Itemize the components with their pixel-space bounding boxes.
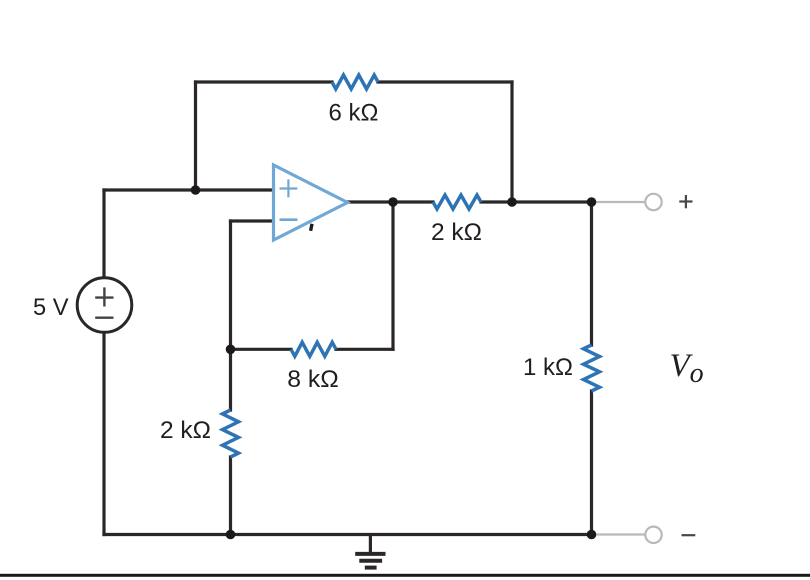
bottom page rule [0, 574, 810, 577]
node junction noninverting input [191, 185, 201, 195]
wire R8k right segment [336, 348, 393, 351]
label minus terminal [682, 534, 696, 536]
resistor 1 kOhm vertical [584, 345, 600, 391]
wire feedback right vertical [510, 82, 513, 202]
svg-text:1 kΩ: 1 kΩ [523, 354, 573, 381]
wire source top vertical [102, 190, 105, 278]
wire R1k top vertical [590, 202, 593, 345]
wire feedback left vertical [194, 82, 197, 190]
resistor 8 kOhm [291, 342, 336, 356]
svg-text:6 kΩ: 6 kΩ [329, 100, 379, 127]
resistor 2 kOhm top [433, 195, 481, 209]
stray tick mark below op-amp [311, 224, 312, 231]
svg-text:8 kΩ: 8 kΩ [287, 366, 339, 393]
svg-text:2 kΩ: 2 kΩ [160, 417, 211, 444]
node junction bottom left [226, 530, 236, 540]
resistor 2 kOhm left vertical [223, 410, 239, 457]
wire feedback 8k vertical [391, 202, 394, 349]
node junction 8k 2k [226, 345, 236, 355]
wire R2k-top right segment [481, 200, 592, 203]
wire inverting input stub [231, 219, 274, 222]
wire R2k-left bottom stub [229, 457, 232, 535]
label plus terminal [679, 195, 692, 208]
voltage source 5 V [77, 278, 132, 333]
wire source bottom vertical [102, 332, 105, 534]
wire R2k-left top stub [229, 349, 232, 410]
resistor 6 kOhm [332, 75, 378, 89]
op-amp [274, 165, 348, 240]
node junction 6k feedback [507, 197, 517, 207]
svg-text:2 kΩ: 2 kΩ [431, 219, 482, 246]
wire feedback top left segment [196, 80, 333, 83]
wire bottom rail [104, 533, 592, 536]
wire feedback top right segment [378, 80, 512, 83]
node junction bottom right [587, 530, 597, 540]
wire to negative output terminal [592, 533, 646, 535]
node junction output top [587, 197, 597, 207]
wire noninverting input [104, 188, 274, 191]
wire inverting input vertical [229, 221, 232, 349]
wire R1k bottom vertical [590, 391, 593, 535]
wire to positive output terminal [592, 201, 646, 203]
wire op-amp output [348, 200, 434, 203]
svg-text:Vo: Vo [670, 348, 704, 389]
svg-text:5 V: 5 V [33, 294, 69, 321]
wire R8k left segment [231, 348, 292, 351]
node junction op-amp output [388, 197, 398, 207]
positive output terminal [645, 194, 661, 210]
negative output terminal [645, 527, 661, 543]
ground [355, 535, 385, 568]
